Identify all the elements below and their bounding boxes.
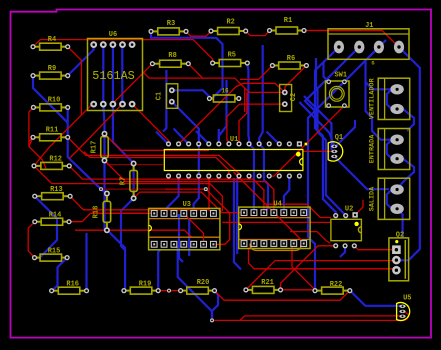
wire blue R9 left down through R10 xyxy=(33,76,68,123)
wire red vertical x244 xyxy=(244,88,246,112)
svg-text:J1: J1 xyxy=(365,22,373,30)
transistor U5 xyxy=(397,303,410,321)
svg-text:U1: U1 xyxy=(230,136,238,144)
wire red R17 top rail y150 xyxy=(105,134,210,151)
via xyxy=(210,318,214,322)
svg-text:R8: R8 xyxy=(168,52,176,60)
svg-text:VENTILADOR: VENTILADOR xyxy=(368,77,376,119)
svg-text:16: 16 xyxy=(221,88,229,95)
IC U1 xyxy=(164,150,303,171)
wire red rail to U2 bottom xyxy=(290,232,330,243)
wire red rail B into U2 xyxy=(266,204,331,217)
svg-text:R1: R1 xyxy=(284,17,292,25)
transistor Q2 xyxy=(389,238,409,281)
wire blue R19 right up xyxy=(158,250,160,291)
svg-text:U2: U2 xyxy=(345,206,353,214)
wire blue vertical x262 through U1 xyxy=(259,45,264,176)
wire red via rail y189 to U3 xyxy=(165,189,230,244)
wire blue connector link 1 xyxy=(403,109,414,131)
svg-text:R14: R14 xyxy=(49,212,62,220)
svg-text:R21: R21 xyxy=(261,279,274,287)
svg-text:R6: R6 xyxy=(287,55,295,63)
wire blue J1 pad4 to Q2 middle xyxy=(397,47,420,260)
wire blue R3 left to I6 left xyxy=(151,31,223,98)
wire red R21 left to Q2 middle xyxy=(246,260,397,290)
svg-text:ENTRADA: ENTRADA xyxy=(368,134,376,163)
wire blue entrada loop xyxy=(387,140,392,159)
wire red C2 vertical branch xyxy=(239,92,247,144)
resistor R2 xyxy=(211,30,218,32)
wire blue J1 pad3 to ventilador xyxy=(366,47,392,89)
svg-text:C2: C2 xyxy=(290,93,298,101)
svg-text:R20: R20 xyxy=(197,279,210,287)
IC U6 xyxy=(88,39,143,111)
wire red R6 left diagonal xyxy=(240,66,272,80)
wire blue R10 right to via xyxy=(68,107,107,193)
wire blue U1 pad3 stub xyxy=(174,129,189,145)
wire red U6 pad diagonal right xyxy=(69,104,122,158)
wire red U4 pad to Q2 bottom y269 xyxy=(249,244,397,270)
wire red R19 to R20 link xyxy=(158,290,180,292)
wire red via rail y320 to U5 xyxy=(212,312,408,321)
wire blue I6 body crossing xyxy=(219,80,227,144)
resistor R17 xyxy=(104,134,106,137)
IC socket U4 xyxy=(239,207,310,248)
wire blue R17 to R18 link xyxy=(103,134,105,231)
svg-text:R19: R19 xyxy=(139,281,152,289)
via xyxy=(99,187,103,191)
svg-text:R15: R15 xyxy=(48,248,61,256)
resistor R18 xyxy=(106,194,108,202)
wire red R14 left to R15 left chain xyxy=(28,222,35,258)
wire blue U1 pads to U3 xyxy=(164,176,179,213)
wire red R21 right to R22 left xyxy=(281,289,316,291)
capacitor C1 xyxy=(166,84,177,109)
wire blue salida loop xyxy=(387,190,392,209)
wire blue R18 bottom to R19 left xyxy=(107,230,125,290)
wire red U2 to Q2 square xyxy=(354,246,392,250)
svg-text:Q2: Q2 xyxy=(396,232,404,240)
svg-text:Q1: Q1 xyxy=(335,134,343,142)
wire red R12 right rail y179 to U4 xyxy=(69,166,264,213)
wire blue R22 right to U5 top xyxy=(350,290,403,305)
svg-text:R16: R16 xyxy=(66,281,79,289)
wire red U2 square stub xyxy=(355,200,363,215)
wire blue R16 right up xyxy=(85,233,87,291)
via xyxy=(204,187,208,191)
wire red U4 to R22 left xyxy=(292,244,315,290)
connector ENTRADA xyxy=(378,129,410,170)
resistor R10 xyxy=(33,106,39,108)
resistor R1 xyxy=(270,30,277,32)
wire red U1 to Q1 middle xyxy=(303,150,331,152)
wire blue ventilador loop xyxy=(387,89,392,109)
wire blue SW1 pad stub xyxy=(324,62,329,82)
wire red U6 pad to R12 diagonal xyxy=(34,104,92,166)
wire blue salida to Q2 xyxy=(397,209,403,238)
resistor R11 xyxy=(33,136,40,138)
svg-text:SW1: SW1 xyxy=(334,72,347,80)
IC U2 xyxy=(331,219,362,240)
wire blue U2 bottom stub xyxy=(340,246,345,257)
wire red U3 diagonal xyxy=(184,213,204,244)
wire red R11 left stub xyxy=(29,137,33,141)
wire red R8 right stub xyxy=(188,64,202,78)
svg-text:R3: R3 xyxy=(167,20,175,28)
wire blue diagonal to Q1 second xyxy=(304,96,332,150)
pin-1 dot Q2 xyxy=(395,240,398,243)
wire red I6 diagonal to C2 xyxy=(179,83,285,144)
resistor 16 xyxy=(209,98,213,100)
svg-text:R4: R4 xyxy=(48,36,56,44)
resistor R13 xyxy=(35,195,42,197)
resistor R7 xyxy=(133,164,135,171)
svg-text:R22: R22 xyxy=(330,281,343,289)
transistor Q1 xyxy=(328,142,343,161)
wire blue Q1 to salida xyxy=(334,156,389,189)
wire blue verticals left of U4 xyxy=(234,178,241,270)
connector J1 xyxy=(328,29,409,60)
svg-text:R9: R9 xyxy=(48,65,56,73)
wire blue R20 right to via xyxy=(212,291,218,318)
resistor R8 xyxy=(152,63,159,65)
wire red C2 bottom to U1 pad7 xyxy=(227,104,285,144)
resistor R3 xyxy=(151,30,158,32)
wire red R14 right rail y213 to U3 pad1 xyxy=(69,213,154,221)
wire red R10 left to R11 left chain xyxy=(29,107,46,168)
resistor R19 xyxy=(124,290,130,292)
resistor R4 xyxy=(33,46,40,48)
wire blue J1 long diagonal to R22 xyxy=(308,40,386,290)
wire blue U1 pad5 stub xyxy=(196,131,209,144)
svg-text:C1: C1 xyxy=(156,92,164,100)
wire red SW1 to U1 pad xyxy=(269,106,344,177)
svg-text:R7: R7 xyxy=(120,177,128,185)
wire red R17 bottom rail y181 to U4 xyxy=(105,161,274,213)
svg-text:U3: U3 xyxy=(183,201,191,209)
resistor R15 xyxy=(35,257,41,259)
wire red rail y155 into U1 xyxy=(67,137,242,177)
wire blue ventilador to entrada xyxy=(366,82,392,140)
IC socket U3 xyxy=(149,208,220,249)
wire blue U1 pad1 stub xyxy=(156,132,169,145)
resistor R9 xyxy=(33,75,40,77)
wire blue R15 right to R16 left xyxy=(52,258,68,291)
svg-text:R11: R11 xyxy=(46,127,59,135)
wire orange U3 inner rails xyxy=(149,219,220,238)
svg-text:U5: U5 xyxy=(403,295,411,303)
wire red J1 top rail xyxy=(310,30,382,32)
resistor R16 xyxy=(52,290,59,292)
switch SW1 xyxy=(326,81,350,107)
wire red R3 right jog to R2 left xyxy=(186,31,211,36)
wire red U6 pad5 to U1 xyxy=(132,104,168,144)
wire blue Q1 top right xyxy=(336,120,355,146)
wire blue C1 left edge xyxy=(163,70,166,132)
resistor R21 xyxy=(246,289,253,291)
svg-text:R13: R13 xyxy=(50,186,63,194)
wire red rail y316 to U5 bottom xyxy=(240,316,403,321)
svg-text:R2: R2 xyxy=(226,19,234,27)
wire blue U1 pad12 stub xyxy=(267,132,280,145)
wire red R7 rail y192 to U4 pad1 xyxy=(134,192,244,213)
wire blue R13 left to R15 left xyxy=(35,196,58,257)
wire blue C1 bottom through U1 xyxy=(172,102,199,176)
wire blue diagonal to Q1 xyxy=(299,102,334,146)
wire red long rail y78 R8 to C2 junction xyxy=(144,73,285,93)
resistor R14 xyxy=(35,221,41,223)
connector VENTILADOR xyxy=(378,78,410,119)
resistor R22 xyxy=(315,290,322,292)
svg-text:G: G xyxy=(371,61,374,67)
svg-text:R10: R10 xyxy=(48,97,61,105)
svg-text:5161AS: 5161AS xyxy=(92,69,134,83)
svg-text:R18: R18 xyxy=(93,206,101,219)
wire blue connector link 2 xyxy=(397,159,414,190)
pin-1 dot U2 xyxy=(354,222,358,226)
wire red R13 right rail y209 to U3 xyxy=(70,196,213,214)
wire red U4 diagonal xyxy=(234,172,304,244)
wire blue R5 right down through U1 xyxy=(247,64,254,176)
wire blue C1 top to I6 xyxy=(172,90,210,98)
wire blue diagonal x316 xyxy=(305,58,317,128)
svg-text:U6: U6 xyxy=(109,31,117,39)
wire blue U1 pads to U4 xyxy=(253,176,255,213)
wire blue J1 pad1 to U2 xyxy=(315,47,339,216)
wire blue J1 pad2 to U2 xyxy=(318,47,360,216)
wire blue U3 to via xyxy=(174,244,212,318)
wire red R1 right to J1 pin4 xyxy=(304,31,399,48)
wire blue R7 through xyxy=(121,165,134,251)
pin-1 dot U1 xyxy=(296,152,301,157)
wire blue U3 inner verticals xyxy=(179,214,183,262)
svg-text:R12: R12 xyxy=(49,156,62,164)
svg-text:U4: U4 xyxy=(273,201,281,209)
wire blue R9 right to U6 pad1 xyxy=(68,45,94,76)
resistor R5 xyxy=(213,62,220,64)
svg-text:R5: R5 xyxy=(228,52,236,60)
wire red dark rail y164 xyxy=(107,164,163,166)
wire blue U1 pad6 stub xyxy=(218,129,220,144)
wire red R18 bottom rail y230 xyxy=(75,230,192,237)
wire red dark rail y189 xyxy=(101,188,165,190)
wire blue U6 pads down xyxy=(121,45,123,105)
wire blue U1 pad down x288 xyxy=(284,176,289,213)
capacitor C2 xyxy=(280,85,292,112)
wire red rail y157 into U1 xyxy=(84,152,229,176)
wire red R4 right drop xyxy=(68,47,82,116)
wire orange U4 inner rails xyxy=(239,218,310,240)
wire red R6 right to C2 top xyxy=(285,66,307,93)
wire red U2 bottom left to R21 right xyxy=(281,246,336,290)
via xyxy=(167,289,171,293)
connector SALIDA xyxy=(378,178,410,219)
wire red R20 right rail y300 to R22 right xyxy=(215,290,350,300)
svg-text:R17: R17 xyxy=(91,141,99,154)
wire red R12 left rail y183 xyxy=(34,166,222,211)
wire red R2 right jog to R1 left xyxy=(246,31,270,36)
wire red U1 pad5 drop xyxy=(208,176,210,210)
resistor R12 xyxy=(34,165,41,167)
resistor R20 xyxy=(181,290,187,292)
svg-text:SALIDA: SALIDA xyxy=(368,186,376,211)
resistor R6 xyxy=(272,65,278,67)
wire red R4 to top rail xyxy=(33,40,213,63)
wire red rail into U2 xyxy=(222,221,331,223)
wire red R8 left to U6 pad xyxy=(113,64,152,104)
